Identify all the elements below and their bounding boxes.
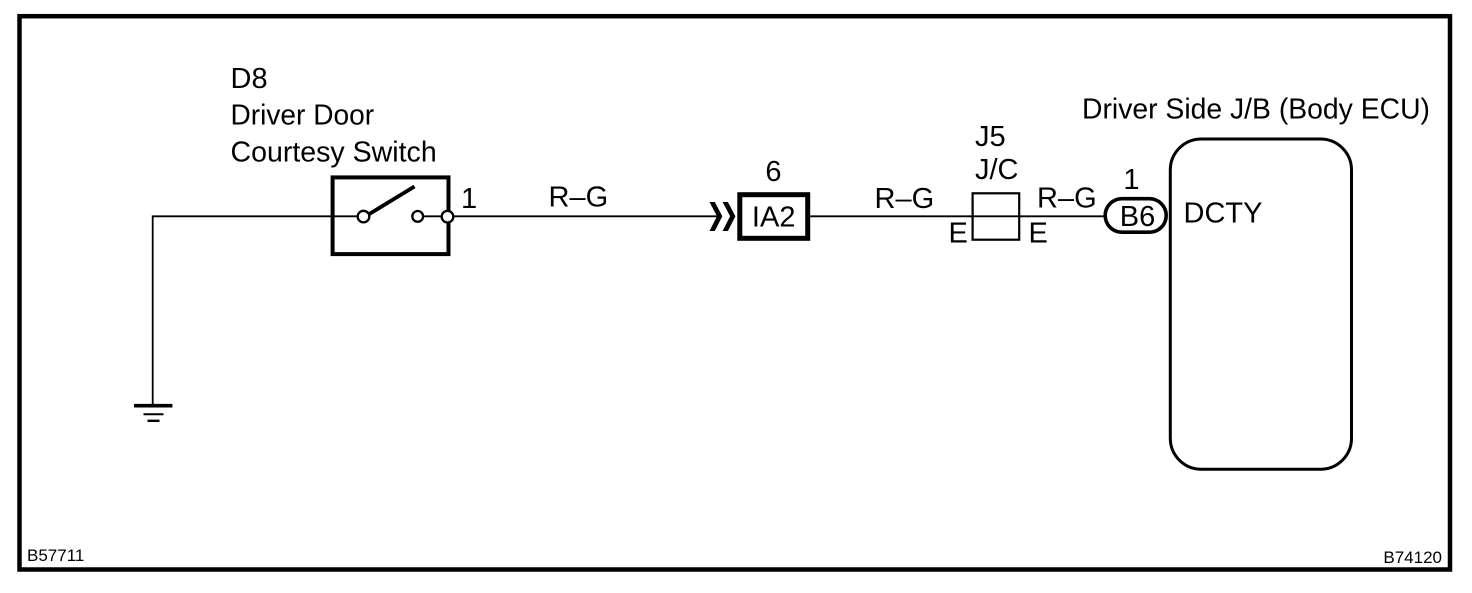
svg-text:R–G: R–G — [549, 182, 609, 214]
ground — [134, 406, 172, 421]
wire IA2 to B6 — [810, 215, 1106, 217]
svg-text:R–G: R–G — [1037, 183, 1097, 215]
svg-text:Driver Side J/B (Body ECU): Driver Side J/B (Body ECU) — [1082, 94, 1430, 126]
connector B6 — [1105, 199, 1166, 233]
svg-text:DCTY: DCTY — [1184, 198, 1263, 230]
connector arrows — [710, 202, 736, 231]
svg-text:B6: B6 — [1120, 201, 1155, 233]
svg-text:E: E — [1029, 218, 1048, 250]
svg-text:E: E — [949, 218, 968, 250]
svg-text:D8: D8 — [231, 63, 268, 95]
svg-text:J/C: J/C — [975, 154, 1019, 186]
svg-text:J5: J5 — [975, 121, 1006, 153]
svg-text:Courtesy Switch: Courtesy Switch — [231, 137, 437, 169]
svg-text:1: 1 — [461, 183, 477, 215]
svg-text:1: 1 — [1123, 164, 1139, 196]
block Driver Side J/B (Body ECU) — [1082, 94, 1430, 470]
svg-text:IA2: IA2 — [752, 202, 796, 234]
svg-text:B57711: B57711 — [27, 546, 84, 565]
wire D8 to connector arrow — [453, 215, 718, 217]
label D8 Driver Door Courtesy Switch — [231, 63, 437, 169]
label J5 J/C — [975, 121, 1019, 186]
svg-text:B74120: B74120 — [1383, 548, 1442, 567]
wire from ground to switch D8 — [153, 216, 364, 404]
switch D8 — [333, 177, 454, 254]
connector IA2 — [740, 195, 808, 239]
svg-text:6: 6 — [765, 156, 781, 188]
svg-text:Driver Door: Driver Door — [231, 100, 375, 132]
svg-text:R–G: R–G — [875, 183, 935, 215]
junction connector J5 — [973, 193, 1020, 239]
